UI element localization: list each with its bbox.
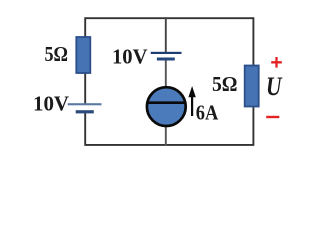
svg-text:10V: 10V bbox=[33, 92, 69, 116]
wire middle upper bbox=[165, 17, 167, 53]
current source I1 circle bbox=[147, 87, 186, 126]
svg-text:10V: 10V bbox=[112, 45, 148, 69]
svg-text:U: U bbox=[266, 72, 283, 101]
wire left upper bbox=[84, 17, 86, 37]
wire bottom bbox=[85, 144, 253, 146]
wire right lower bbox=[252, 106, 254, 146]
label minus sign bbox=[266, 116, 279, 118]
svg-text:6A: 6A bbox=[196, 101, 219, 125]
wire middle between battery and source bbox=[165, 59, 167, 88]
wire middle lower bbox=[165, 126, 167, 146]
wire top bbox=[85, 17, 253, 19]
current source I1 bar bbox=[147, 101, 186, 104]
wire left lower bbox=[84, 112, 86, 146]
svg-text:5Ω: 5Ω bbox=[45, 42, 69, 66]
wire left middle bbox=[84, 73, 86, 105]
battery V2 10V middle: long plate bbox=[151, 52, 182, 54]
current direction arrow 6A bbox=[191, 95, 193, 116]
resistor R2 5ohm right bbox=[245, 66, 259, 107]
battery V1 10V left: long plate bbox=[68, 103, 102, 105]
svg-text:5Ω: 5Ω bbox=[212, 72, 238, 96]
battery V2 10V middle: short plate bbox=[157, 58, 175, 61]
wire right upper bbox=[252, 17, 254, 66]
label plus sign bbox=[271, 57, 282, 68]
resistor R1 5ohm left bbox=[76, 37, 90, 73]
battery V1 10V left: short plate bbox=[76, 110, 94, 113]
